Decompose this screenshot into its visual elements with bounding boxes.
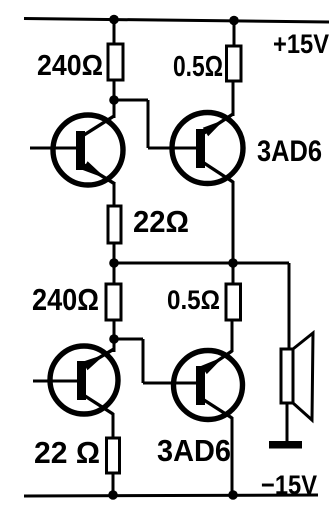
svg-text:0.5Ω: 0.5Ω: [173, 51, 223, 83]
wire R4 bottom lead: [113, 320, 116, 339]
wire -15V rail: [24, 495, 318, 496]
svg-text:0.5Ω: 0.5Ω: [167, 285, 220, 315]
wire speaker to ground: [286, 403, 289, 444]
wire Q2 collector to output node: [232, 181, 235, 263]
transistor Q2 emitter arrow: [203, 120, 225, 137]
speaker cone: [293, 333, 313, 420]
wire R2 top lead: [233, 20, 236, 47]
node junction top-right: [229, 16, 239, 26]
resistor R3 22ohm body: [108, 206, 121, 243]
transistor Q4 base bar: [196, 366, 205, 405]
resistor R2 0.5ohm body: [227, 46, 242, 81]
wire Q3 collector to R6: [112, 413, 115, 439]
wire node to Q2 base vertical: [147, 100, 150, 148]
wire Q1 emitter to R3: [113, 183, 116, 207]
wire R2 bottom to Q2: [232, 81, 235, 116]
wire node to Q2 base horizontal: [114, 99, 148, 102]
node junction bottom-left: [108, 490, 118, 500]
transistor Q3 circle: [50, 346, 118, 414]
transistor Q3 emitter diagonal upper: [85, 349, 114, 366]
wire R1 top lead: [113, 19, 116, 45]
svg-text:22Ω: 22Ω: [133, 204, 189, 239]
wire output row: [114, 262, 289, 265]
transistor Q2 collector diagonal lower: [204, 163, 233, 182]
wire node to Q4 base horizontal: [114, 338, 143, 341]
svg-text:240Ω: 240Ω: [32, 282, 99, 317]
resistor R1 240ohm body: [108, 44, 123, 80]
resistor R6 22ohm body: [107, 438, 120, 473]
wire Q4 base lead: [143, 382, 196, 385]
wire output node to R4: [113, 263, 116, 285]
wire Q4 collector to rail: [231, 417, 234, 495]
transistor Q1 emitter diagonal: [84, 165, 115, 184]
wire +15V rail: [24, 19, 329, 23]
svg-text:3AD6: 3AD6: [157, 433, 231, 468]
ground: [269, 441, 302, 449]
transistor Q3 emitter arrow: [83, 354, 106, 370]
transistor Q2 base bar: [196, 129, 205, 168]
wire Q3 base lead: [33, 380, 79, 383]
wire R5 top lead: [232, 263, 235, 285]
svg-text:240Ω: 240Ω: [37, 50, 103, 82]
svg-text:22 Ω: 22 Ω: [34, 435, 100, 470]
wire Q3 collector stub: [113, 339, 116, 352]
node output left: [109, 258, 119, 268]
transistor Q1 circle: [53, 115, 123, 185]
node junction top-left: [109, 15, 119, 25]
node junction Q1 collector: [109, 95, 119, 105]
transistor Q1 collector diagonal: [84, 116, 114, 135]
transistor Q4 circle: [174, 351, 243, 420]
wire R5 bottom to Q4: [231, 320, 234, 352]
resistor R5 0.5ohm body: [226, 284, 241, 320]
wire R1 bottom lead: [113, 80, 116, 100]
transistor Q3 collector diagonal lower: [85, 396, 113, 414]
node junction bottom-right: [228, 490, 238, 500]
wire R6 bottom to rail: [112, 473, 115, 495]
wire output to speaker vertical: [288, 263, 291, 350]
transistor Q4 collector diagonal lower: [204, 400, 232, 418]
transistor Q1 emitter arrow: [82, 161, 106, 178]
resistor R4 240ohm body: [106, 284, 121, 320]
speaker body: [281, 349, 293, 403]
wire Q2 base lead: [148, 147, 196, 150]
transistor Q4 emitter arrow: [201, 357, 223, 374]
wire node to Q4 base vertical: [142, 339, 145, 383]
node junction Q3 collector: [109, 334, 119, 344]
transistor Q2 circle: [172, 113, 243, 184]
transistor Q2 emitter diagonal upper: [204, 114, 233, 133]
transistor Q3 base bar: [77, 361, 86, 400]
transistor Q4 emitter diagonal upper: [204, 351, 232, 370]
svg-text:3AD6: 3AD6: [257, 135, 322, 168]
wire Q1 base lead: [30, 147, 78, 150]
transistor Q1 base bar: [76, 131, 85, 170]
svg-text:−15V: −15V: [261, 470, 317, 500]
node output right: [228, 258, 238, 268]
svg-text:+15V: +15V: [273, 29, 329, 59]
wire Q1 collector stub: [113, 100, 116, 118]
wire R3 bottom to output node: [113, 243, 116, 263]
